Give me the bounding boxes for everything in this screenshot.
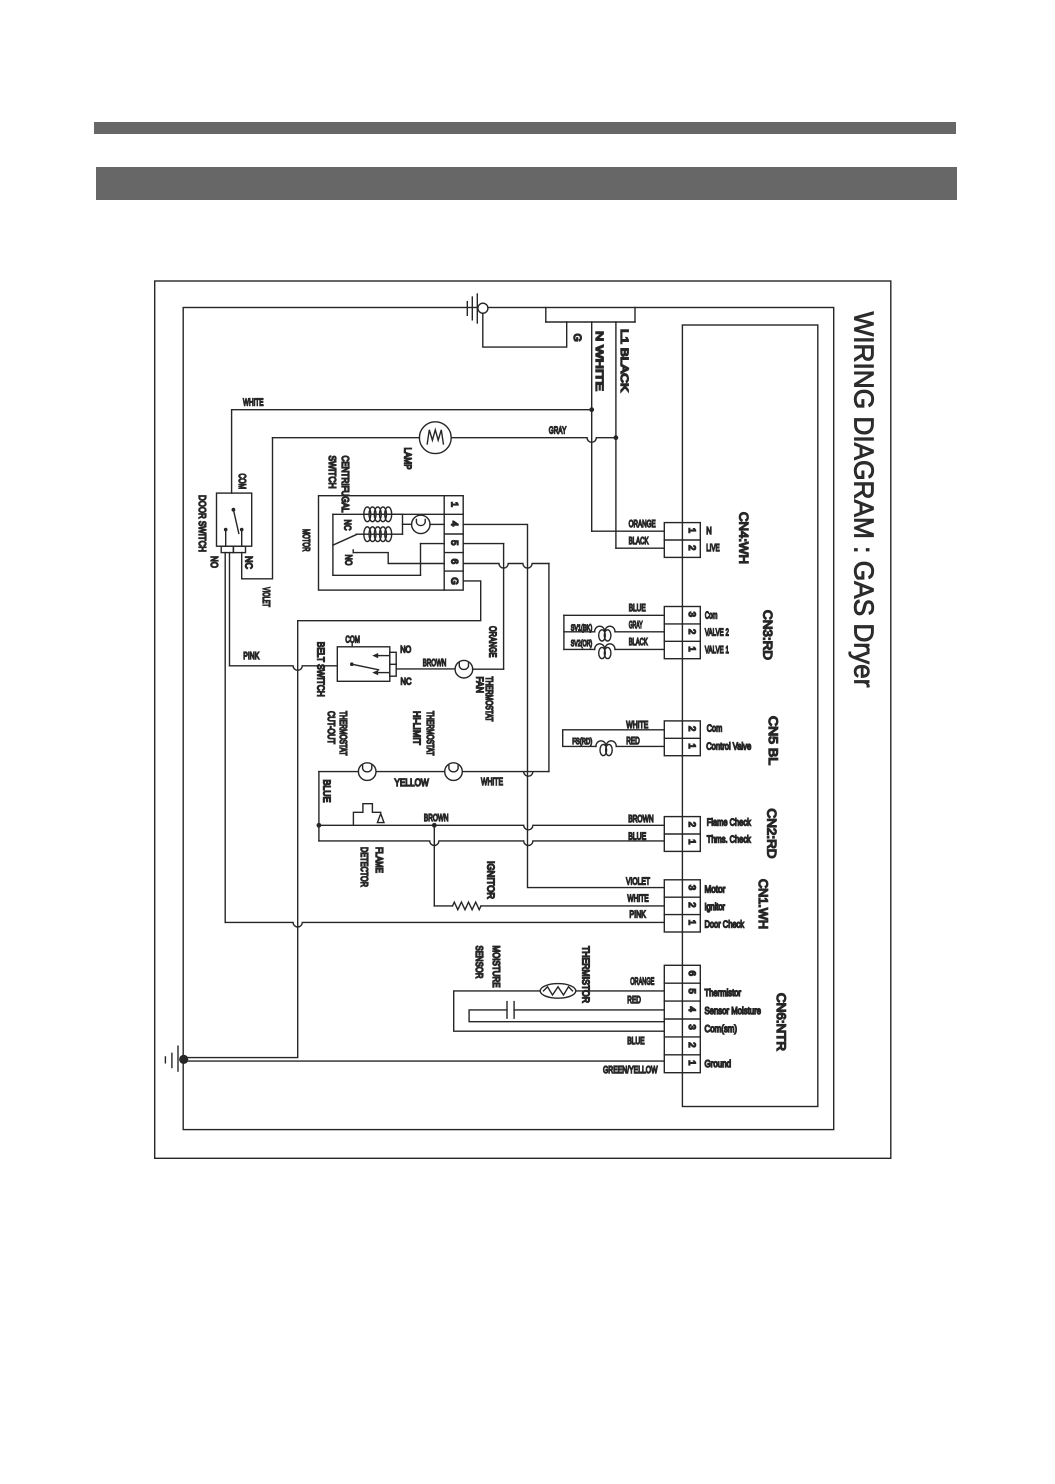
door switch contacts bbox=[224, 528, 244, 546]
svg-text:NC: NC bbox=[401, 677, 412, 688]
thermostat fan bbox=[455, 660, 473, 678]
svg-text:ORANGE: ORANGE bbox=[629, 519, 656, 530]
svg-text:BLACK: BLACK bbox=[629, 637, 648, 648]
svg-text:Ignitor: Ignitor bbox=[705, 902, 726, 913]
valve solenoid common bracket bbox=[564, 615, 595, 649]
wire actuator to motor pin 4 bbox=[430, 523, 444, 525]
svg-text:BLUE: BLUE bbox=[628, 832, 646, 843]
svg-text:CENTRIFUGAL: CENTRIFUGAL bbox=[339, 456, 350, 513]
svg-text:RED: RED bbox=[626, 736, 640, 747]
wire BLUE valve common to CN3-3 bbox=[564, 614, 664, 616]
svg-text:PINK: PINK bbox=[629, 910, 646, 921]
solenoid SV1(BK) bbox=[595, 626, 615, 641]
wire VIOLET to door switch NC bbox=[242, 438, 273, 579]
svg-text:YELLOW: YELLOW bbox=[394, 777, 428, 789]
door switch NC tab bbox=[233, 546, 245, 552]
motor box bbox=[319, 496, 464, 590]
svg-text:SENSOR: SENSOR bbox=[473, 946, 484, 979]
svg-text:2: 2 bbox=[686, 822, 697, 827]
svg-text:BELT SWITCH: BELT SWITCH bbox=[315, 642, 326, 697]
svg-text:THERMOSTAT: THERMOSTAT bbox=[424, 711, 435, 756]
svg-text:Thms. Check: Thms. Check bbox=[707, 835, 752, 846]
svg-text:COM: COM bbox=[236, 474, 247, 490]
svg-text:NC: NC bbox=[243, 556, 254, 569]
wire cut-out left bbox=[319, 771, 359, 773]
svg-text:HI-LIMIT: HI-LIMIT bbox=[411, 711, 422, 745]
svg-text:LIVE: LIVE bbox=[706, 543, 720, 554]
svg-text:1: 1 bbox=[686, 1060, 697, 1065]
svg-text:WHITE: WHITE bbox=[627, 894, 649, 905]
flame detector arrow bbox=[377, 814, 384, 823]
svg-text:N WHITE: N WHITE bbox=[593, 331, 605, 391]
connector CN1 bbox=[664, 880, 700, 932]
wire BLUE thms-check to CN2 bbox=[319, 841, 664, 846]
svg-text:BROWN: BROWN bbox=[423, 658, 447, 669]
svg-text:1: 1 bbox=[686, 920, 697, 925]
solenoid FS(RD) bbox=[596, 741, 616, 756]
svg-text:MOISTURE: MOISTURE bbox=[490, 946, 501, 988]
svg-text:Control Valve: Control Valve bbox=[706, 742, 751, 753]
earth ground (bottom left) bbox=[165, 1046, 178, 1071]
belt switch NC contact bbox=[372, 670, 390, 675]
svg-text:RED: RED bbox=[627, 995, 641, 1006]
belt switch output tab bbox=[390, 652, 396, 676]
wire BLUE vertical bbox=[318, 772, 320, 841]
junction dot WHITE/N bbox=[589, 407, 594, 412]
thermistor bbox=[540, 984, 576, 999]
connector CN4 bbox=[664, 523, 700, 558]
wire GRAY lamp to L1 line bbox=[451, 438, 616, 443]
wire BLACK L1-line to CN4-2 bbox=[616, 547, 664, 549]
belt switch NO contact bbox=[372, 653, 390, 658]
door switch box bbox=[217, 493, 252, 546]
svg-text:NO: NO bbox=[208, 556, 219, 568]
svg-text:Com: Com bbox=[707, 724, 723, 735]
svg-text:FLAME: FLAME bbox=[373, 847, 384, 873]
svg-text:BLUE: BLUE bbox=[321, 780, 332, 803]
junction dot GRAY/L1 bbox=[614, 435, 619, 440]
motor start winding bbox=[364, 527, 392, 542]
svg-text:Thermistor: Thermistor bbox=[705, 988, 742, 999]
svg-text:G: G bbox=[571, 334, 583, 342]
svg-text:DETECTOR: DETECTOR bbox=[358, 847, 369, 887]
thermostat hi-limit bbox=[445, 763, 463, 781]
thermostat cut-out bbox=[358, 763, 376, 781]
flame detector element bbox=[353, 804, 380, 826]
motor internal wiring bbox=[333, 514, 444, 575]
svg-text:ORANGE: ORANGE bbox=[630, 976, 654, 987]
svg-text:GRAY: GRAY bbox=[629, 620, 643, 631]
svg-text:5: 5 bbox=[448, 540, 459, 545]
wire fan to orange vertical bbox=[473, 668, 504, 670]
door switch lever bbox=[232, 508, 239, 534]
svg-text:4: 4 bbox=[448, 521, 459, 526]
wire lamp left to violet corner bbox=[273, 437, 420, 439]
moisture sensor electrodes bbox=[507, 1002, 514, 1019]
svg-text:DOOR SWITCH: DOOR SWITCH bbox=[196, 495, 207, 552]
junction dot flame detector bbox=[317, 823, 322, 828]
svg-text:1: 1 bbox=[686, 528, 697, 533]
wire motor-6 vertical down bbox=[548, 564, 550, 772]
svg-text:WHITE: WHITE bbox=[243, 398, 264, 409]
svg-text:WHITE: WHITE bbox=[481, 776, 503, 788]
wire door NO to belt switch bbox=[229, 553, 231, 666]
wire WHITE ignitor to CN1 bbox=[481, 905, 664, 907]
svg-text:NC: NC bbox=[342, 520, 353, 531]
svg-text:2: 2 bbox=[686, 1042, 697, 1047]
svg-text:WHITE: WHITE bbox=[626, 720, 648, 731]
svg-text:CN1.WH: CN1.WH bbox=[756, 879, 770, 929]
svg-text:2: 2 bbox=[686, 629, 697, 634]
motor NC lever bbox=[333, 535, 356, 546]
svg-text:Motor: Motor bbox=[705, 885, 726, 896]
motor main winding bbox=[364, 507, 392, 522]
wire hi-limit to motor-6 bbox=[462, 772, 549, 777]
earth ground (top) bbox=[467, 294, 488, 323]
svg-text:VALVE 2: VALVE 2 bbox=[705, 628, 729, 639]
wire door NO to belt COM bbox=[230, 666, 338, 671]
wire BROWN flame detector to CN2 bbox=[319, 825, 664, 830]
svg-text:BLUE: BLUE bbox=[629, 603, 646, 614]
connector CN3 bbox=[664, 607, 700, 659]
wire GREEN/YELLOW to CN6 ground bbox=[184, 1060, 665, 1062]
ground junction dot bbox=[179, 1055, 188, 1064]
svg-text:GREEN/YELLOW: GREEN/YELLOW bbox=[603, 1065, 658, 1076]
svg-text:THERMOSTAT: THERMOSTAT bbox=[337, 711, 348, 756]
wire PINK to CN1 door check bbox=[225, 922, 664, 927]
wire moisture sensor loop (red) bbox=[469, 1010, 664, 1022]
wire N (vertical) bbox=[591, 322, 593, 531]
header bar thick bbox=[96, 167, 957, 200]
wire belt to thermostat fan bbox=[396, 668, 455, 670]
svg-text:2: 2 bbox=[686, 726, 697, 731]
svg-text:SV2(OR): SV2(OR) bbox=[571, 638, 593, 648]
svg-text:4: 4 bbox=[686, 1006, 697, 1011]
svg-text:GRAY: GRAY bbox=[549, 426, 567, 437]
svg-text:3: 3 bbox=[686, 612, 697, 617]
belt switch lever bbox=[350, 644, 379, 670]
svg-text:Door Check: Door Check bbox=[705, 920, 745, 931]
wire RED FS to CN5-1 bbox=[616, 745, 664, 747]
wire YELLOW between thermostats bbox=[376, 771, 445, 773]
outer border frame bbox=[155, 281, 891, 1158]
svg-text:N: N bbox=[706, 526, 712, 537]
svg-text:VALVE 1: VALVE 1 bbox=[705, 645, 729, 656]
svg-text:NO: NO bbox=[400, 645, 411, 656]
svg-text:2: 2 bbox=[686, 902, 697, 907]
svg-text:SV1(BK): SV1(BK) bbox=[571, 622, 593, 632]
solenoid SV2(OR) bbox=[595, 644, 615, 659]
svg-text:LAMP: LAMP bbox=[401, 448, 412, 470]
svg-text:BROWN: BROWN bbox=[424, 813, 449, 824]
connector CN2 bbox=[664, 817, 700, 852]
svg-text:IGNITOR: IGNITOR bbox=[484, 861, 495, 899]
svg-text:PINK: PINK bbox=[243, 651, 259, 662]
motor NO contact wire bbox=[353, 553, 444, 564]
svg-text:CN2:RD: CN2:RD bbox=[765, 809, 779, 859]
svg-text:1: 1 bbox=[686, 743, 697, 748]
wire GRAY SV1 to CN3-2 bbox=[615, 631, 664, 633]
svg-text:Flame Check: Flame Check bbox=[707, 817, 752, 828]
svg-text:Sensor Moisture: Sensor Moisture bbox=[705, 1006, 762, 1017]
wire motor 6 to thermostat chain bbox=[463, 564, 549, 569]
wire G to earth ground bbox=[483, 313, 567, 347]
centrifugal switch actuator bbox=[412, 515, 430, 533]
ignitor resistance element bbox=[453, 902, 482, 910]
belt switch box bbox=[337, 647, 390, 682]
connector CN6 bbox=[664, 965, 700, 1072]
wire motor 5 to orange vertical bbox=[463, 543, 503, 545]
wire WHITE door-COM to N line bbox=[232, 410, 592, 493]
svg-text:COM: COM bbox=[345, 634, 360, 645]
junction dot BROWN/ignitor bbox=[432, 823, 437, 828]
svg-text:3: 3 bbox=[686, 885, 697, 890]
motor terminal strip bbox=[444, 496, 463, 590]
wire motor 4 to CN1 motor (violet) bbox=[463, 524, 664, 887]
lamp bbox=[419, 422, 451, 454]
svg-text:2: 2 bbox=[686, 545, 697, 550]
wire ignitor vertical bbox=[433, 825, 435, 906]
svg-text:G: G bbox=[448, 577, 459, 584]
svg-text:BROWN: BROWN bbox=[628, 814, 654, 825]
svg-text:SWITCH: SWITCH bbox=[326, 456, 337, 489]
svg-text:THERMISTOR: THERMISTOR bbox=[580, 946, 591, 1003]
wire thermistor loop (orange) bbox=[454, 991, 665, 1031]
motor winding bracket bbox=[391, 514, 412, 534]
control board box bbox=[682, 325, 817, 1107]
svg-text:3: 3 bbox=[686, 1024, 697, 1029]
svg-text:MOTOR: MOTOR bbox=[300, 529, 311, 552]
wire ORANGE motor-5 down to fan bbox=[503, 544, 505, 670]
svg-text:ORANGE: ORANGE bbox=[486, 626, 497, 658]
wire WHITE CN5 com bbox=[563, 730, 665, 747]
svg-text:1: 1 bbox=[448, 502, 459, 507]
motor NO contact tick bbox=[352, 550, 354, 553]
header bar thin bbox=[94, 122, 956, 134]
svg-text:FAN: FAN bbox=[474, 677, 485, 694]
wire door NO down (pink) bbox=[224, 553, 226, 923]
svg-text:1: 1 bbox=[686, 646, 697, 651]
svg-text:NO: NO bbox=[343, 555, 354, 566]
svg-text:Com: Com bbox=[705, 611, 718, 622]
svg-text:5: 5 bbox=[686, 989, 697, 994]
svg-text:WIRING DIAGRAM : GAS Dryer: WIRING DIAGRAM : GAS Dryer bbox=[848, 312, 879, 688]
connector CN5 bbox=[664, 721, 700, 756]
inner circuit boundary box bbox=[183, 308, 834, 1130]
svg-text:BLUE: BLUE bbox=[627, 1036, 645, 1047]
svg-text:FS(RD): FS(RD) bbox=[572, 736, 592, 746]
svg-text:CN4:WH: CN4:WH bbox=[737, 512, 751, 564]
svg-text:CN5 BL: CN5 BL bbox=[766, 716, 780, 765]
svg-text:6: 6 bbox=[686, 971, 697, 976]
svg-text:CN6:NTR: CN6:NTR bbox=[774, 993, 788, 1051]
wire BLACK SV2 to CN3-1 bbox=[615, 648, 664, 650]
svg-text:L1 BLACK: L1 BLACK bbox=[618, 329, 630, 392]
svg-text:BLACK: BLACK bbox=[629, 536, 649, 547]
svg-text:VIOLET: VIOLET bbox=[626, 876, 650, 887]
svg-text:6: 6 bbox=[448, 559, 459, 564]
svg-text:VIOLET: VIOLET bbox=[260, 587, 271, 607]
svg-text:Ground: Ground bbox=[705, 1059, 732, 1070]
power cord terminal block bbox=[546, 308, 635, 323]
wire motor G to left ground rail bbox=[184, 581, 481, 1058]
door switch NO tab bbox=[221, 546, 233, 552]
wire ORANGE N-line to CN4-1 bbox=[592, 530, 665, 532]
svg-text:1: 1 bbox=[686, 839, 697, 844]
svg-text:CUT-OUT: CUT-OUT bbox=[325, 711, 336, 744]
wire L1 (vertical) bbox=[615, 322, 617, 548]
svg-text:Com(sm): Com(sm) bbox=[705, 1024, 738, 1035]
svg-text:CN3:RD: CN3:RD bbox=[761, 610, 775, 660]
